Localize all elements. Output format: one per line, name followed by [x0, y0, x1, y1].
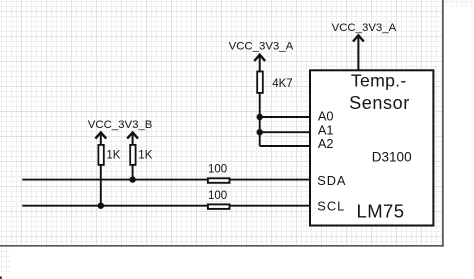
svg-text:VCC_3V3_A: VCC_3V3_A — [229, 40, 294, 52]
net label VCC_3V3_A (top) — [332, 22, 397, 34]
value label 4K7 — [272, 78, 292, 90]
pin label A1 — [318, 123, 334, 138]
svg-text:D3100: D3100 — [372, 150, 412, 165]
svg-text:Temp.-: Temp.- — [351, 71, 407, 91]
resistor 100 (SCL series) — [208, 204, 230, 209]
svg-text:100: 100 — [208, 164, 227, 176]
part number D3100 — [372, 150, 412, 165]
junction on SDA — [129, 176, 135, 182]
power symbol VCC_3V3_B right arrow — [127, 132, 138, 144]
wire 4K7 down to A2 — [259, 93, 261, 146]
label Sensor — [349, 93, 410, 113]
svg-text:LM75: LM75 — [357, 200, 405, 221]
svg-text:A2: A2 — [318, 136, 334, 151]
net label VCC_3V3_B — [88, 119, 153, 131]
value label 100 (SCL) — [208, 190, 227, 202]
wire 1K to SCL — [100, 165, 102, 206]
value label 1K (left) — [106, 150, 120, 162]
wire pin A0 — [260, 116, 310, 118]
power symbol VCC_3V3_A top arrow — [353, 35, 364, 70]
wire pin A1 — [260, 131, 310, 133]
svg-text:SCL: SCL — [317, 199, 345, 214]
label LM75 — [357, 200, 405, 221]
resistor 1K (SDA pull-up) — [130, 145, 135, 165]
resistor 1K (SCL pull-up) — [98, 145, 103, 165]
resistor 100 (SDA series) — [208, 178, 230, 183]
wire SCL left segment — [22, 205, 207, 207]
svg-text:VCC_3V3_A: VCC_3V3_A — [332, 22, 397, 34]
IC U1 LM75 body — [310, 70, 433, 225]
svg-text:100: 100 — [208, 190, 227, 202]
svg-text:Sensor: Sensor — [349, 93, 410, 113]
resistor 4K7 — [257, 72, 263, 93]
junction A1 — [257, 129, 263, 135]
svg-text:1K: 1K — [138, 150, 152, 162]
value label 100 (SDA) — [208, 164, 227, 176]
junction on SCL — [98, 203, 104, 209]
wire SDA left segment — [22, 179, 207, 181]
pin label A2 — [318, 136, 334, 151]
power symbol VCC_3V3_A left arrow — [254, 55, 265, 71]
junction A0 — [257, 114, 263, 120]
wire 1K to SDA — [132, 165, 134, 180]
svg-text:A0: A0 — [318, 108, 334, 123]
svg-text:1K: 1K — [106, 150, 120, 162]
pin label SDA — [317, 173, 346, 188]
svg-text:4K7: 4K7 — [272, 78, 292, 90]
power symbol VCC_3V3_B left arrow — [95, 132, 106, 144]
wire SDA right segment — [230, 179, 310, 181]
svg-text:VCC_3V3_B: VCC_3V3_B — [88, 119, 153, 131]
value label 1K (right) — [138, 150, 152, 162]
wire pin A2 — [260, 145, 310, 147]
wire SCL right segment — [230, 205, 310, 207]
net label VCC_3V3_A (left) — [229, 40, 294, 52]
svg-text:SDA: SDA — [317, 173, 346, 188]
label Temp.- — [351, 71, 407, 91]
pin label SCL — [317, 199, 345, 214]
pin label A0 — [318, 108, 334, 123]
